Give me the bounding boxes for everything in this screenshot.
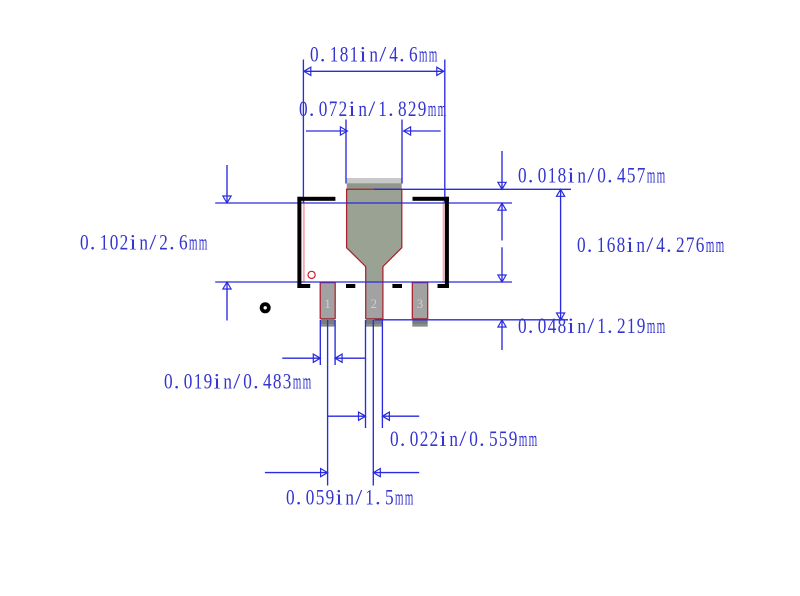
svg-text:n: n [358, 96, 367, 121]
svg-text:/: / [149, 230, 157, 255]
svg-text:m: m [429, 42, 438, 67]
svg-text:n: n [223, 369, 232, 394]
svg-text:0: 0 [577, 232, 586, 257]
svg-text:0: 0 [410, 426, 419, 451]
svg-text:n: n [449, 426, 458, 451]
svg-text:.: . [169, 230, 175, 255]
svg-text:8: 8 [398, 96, 407, 121]
svg-text:.: . [479, 426, 485, 451]
svg-text:1: 1 [324, 297, 330, 311]
svg-text:/: / [379, 42, 387, 67]
svg-text:2: 2 [676, 232, 685, 257]
svg-text:8: 8 [558, 313, 567, 338]
svg-text:m: m [293, 369, 302, 394]
svg-text:0: 0 [319, 96, 328, 121]
svg-text:1: 1 [365, 485, 374, 510]
svg-text:2: 2 [120, 230, 129, 255]
svg-text:/: / [587, 163, 595, 188]
svg-text:i: i [349, 96, 356, 121]
svg-text:0: 0 [243, 369, 252, 394]
svg-text:m: m [716, 232, 725, 257]
svg-text:m: m [428, 96, 437, 121]
svg-text:1: 1 [350, 42, 359, 67]
svg-text:m: m [657, 313, 666, 338]
svg-text:6: 6 [607, 232, 616, 257]
svg-text:m: m [303, 369, 312, 394]
svg-text:0: 0 [286, 485, 295, 510]
svg-text:.: . [400, 426, 406, 451]
svg-text:n: n [577, 163, 586, 188]
svg-text:/: / [646, 232, 654, 257]
svg-text:3: 3 [283, 369, 292, 394]
svg-text:2: 2 [159, 230, 168, 255]
svg-text:i: i [568, 163, 575, 188]
svg-text:1: 1 [378, 96, 387, 121]
svg-text:.: . [607, 313, 613, 338]
svg-text:m: m [519, 426, 528, 451]
svg-text:.: . [375, 485, 381, 510]
svg-text:.: . [399, 42, 405, 67]
svg-text:0: 0 [110, 230, 119, 255]
svg-text:i: i [627, 232, 634, 257]
svg-text:.: . [309, 96, 315, 121]
svg-text:m: m [529, 426, 538, 451]
svg-text:6: 6 [179, 230, 188, 255]
svg-text:.: . [666, 232, 672, 257]
svg-text:0: 0 [538, 313, 547, 338]
svg-text:/: / [368, 96, 376, 121]
svg-text:.: . [607, 163, 613, 188]
svg-text:3: 3 [417, 297, 423, 311]
svg-text:/: / [587, 313, 595, 338]
svg-text:0: 0 [80, 230, 89, 255]
svg-text:n: n [139, 230, 148, 255]
svg-text:i: i [130, 230, 137, 255]
svg-text:2: 2 [617, 313, 626, 338]
svg-text:1: 1 [100, 230, 109, 255]
svg-text:4: 4 [617, 163, 626, 188]
svg-text:5: 5 [499, 426, 508, 451]
svg-text:0: 0 [390, 426, 399, 451]
svg-text:.: . [528, 163, 534, 188]
svg-text:7: 7 [329, 96, 338, 121]
svg-text:m: m [706, 232, 715, 257]
svg-text:6: 6 [409, 42, 418, 67]
svg-text:.: . [388, 96, 394, 121]
svg-text:m: m [647, 163, 656, 188]
svg-text:.: . [174, 369, 180, 394]
svg-text:5: 5 [316, 485, 325, 510]
svg-text:i: i [336, 485, 343, 510]
svg-text:4: 4 [263, 369, 272, 394]
svg-text:n: n [636, 232, 645, 257]
svg-text:2: 2 [420, 426, 429, 451]
svg-text:m: m [189, 230, 198, 255]
svg-text:.: . [320, 42, 326, 67]
svg-text:i: i [214, 369, 221, 394]
svg-text:9: 9 [637, 313, 646, 338]
svg-text:8: 8 [273, 369, 282, 394]
svg-text:9: 9 [418, 96, 427, 121]
svg-text:2: 2 [430, 426, 439, 451]
svg-text:1: 1 [597, 313, 606, 338]
svg-text:1: 1 [330, 42, 339, 67]
svg-text:0: 0 [164, 369, 173, 394]
svg-text:0: 0 [310, 42, 319, 67]
svg-text:5: 5 [627, 163, 636, 188]
svg-text:8: 8 [340, 42, 349, 67]
svg-text:2: 2 [408, 96, 417, 121]
svg-text:n: n [369, 42, 378, 67]
svg-text:5: 5 [385, 485, 394, 510]
svg-text:1: 1 [597, 232, 606, 257]
svg-text:8: 8 [558, 163, 567, 188]
svg-text:4: 4 [656, 232, 665, 257]
svg-text:/: / [233, 369, 241, 394]
svg-text:0: 0 [184, 369, 193, 394]
svg-text:n: n [345, 485, 354, 510]
svg-text:9: 9 [326, 485, 335, 510]
svg-text:0: 0 [518, 163, 527, 188]
svg-text:m: m [405, 485, 414, 510]
svg-text:.: . [528, 313, 534, 338]
svg-text:m: m [199, 230, 208, 255]
svg-text:i: i [360, 42, 367, 67]
svg-text:2: 2 [371, 297, 377, 311]
svg-text:1: 1 [548, 163, 557, 188]
svg-text:.: . [587, 232, 593, 257]
svg-text:8: 8 [617, 232, 626, 257]
svg-text:1: 1 [194, 369, 203, 394]
svg-text:.: . [90, 230, 96, 255]
svg-text:m: m [395, 485, 404, 510]
svg-text:9: 9 [509, 426, 518, 451]
svg-text:i: i [440, 426, 447, 451]
svg-text:n: n [577, 313, 586, 338]
svg-text:.: . [253, 369, 259, 394]
svg-text:2: 2 [339, 96, 348, 121]
svg-text:0: 0 [518, 313, 527, 338]
svg-text:m: m [438, 96, 447, 121]
svg-text:1: 1 [627, 313, 636, 338]
svg-text:6: 6 [696, 232, 705, 257]
svg-text:9: 9 [204, 369, 213, 394]
svg-text:m: m [657, 163, 666, 188]
svg-text:.: . [296, 485, 302, 510]
svg-text:0: 0 [538, 163, 547, 188]
svg-text:0: 0 [299, 96, 308, 121]
svg-text:0: 0 [306, 485, 315, 510]
svg-text:4: 4 [389, 42, 398, 67]
svg-text:0: 0 [469, 426, 478, 451]
svg-text:m: m [647, 313, 656, 338]
svg-text:0: 0 [597, 163, 606, 188]
svg-text:5: 5 [489, 426, 498, 451]
svg-text:/: / [355, 485, 363, 510]
svg-text:/: / [459, 426, 467, 451]
svg-text:7: 7 [686, 232, 695, 257]
svg-text:4: 4 [548, 313, 557, 338]
svg-text:i: i [568, 313, 575, 338]
svg-text:m: m [419, 42, 428, 67]
svg-text:7: 7 [637, 163, 646, 188]
